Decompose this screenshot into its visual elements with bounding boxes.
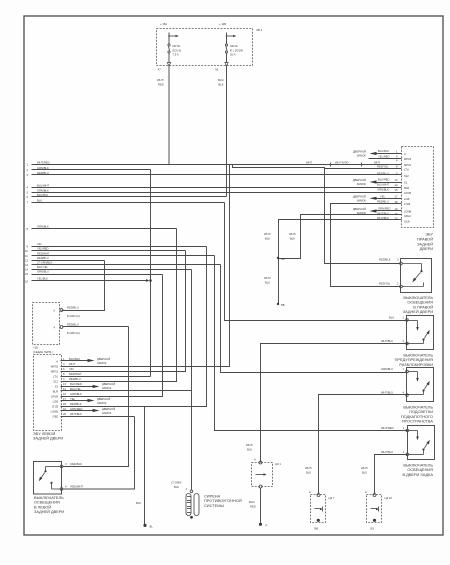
wire pin4 ECU-R <box>325 168 402 170</box>
svg-text:WHT/: WHT/ <box>157 78 164 82</box>
svg-text:WHT/BLU: WHT/BLU <box>381 391 393 395</box>
svg-text:WHT/BLU: WHT/BLU <box>377 212 389 216</box>
svg-text:ДВЕРНОЙ: ДВЕРНОЙ <box>102 407 115 411</box>
svg-text:ЗАМОК: ЗАМОК <box>357 182 367 186</box>
svg-text:YEL: YEL <box>70 397 76 401</box>
svg-text:BLU/BLK: BLU/BLK <box>378 149 389 153</box>
ECU-L row5 wire RED/BLU <box>63 377 81 381</box>
svg-text:LGNB: LGNB <box>404 210 412 214</box>
wire drop to diode box <box>261 344 409 463</box>
bus row 6 BLU/BLK <box>27 193 227 199</box>
svg-text:MP33: MP33 <box>404 157 412 161</box>
svg-text:MP31: MP31 <box>404 163 412 167</box>
wire pin9 YEL arrow <box>353 194 402 202</box>
svg-text:ДВЕРНОЙ: ДВЕРНОЙ <box>353 207 366 211</box>
svg-text:BLK/RED: BLK/RED <box>378 178 390 182</box>
svg-text:A: A <box>309 490 311 494</box>
wire pin1 BLU/BLK with door lock arrow <box>353 149 402 158</box>
wire riser to bottom-left switch pin2 <box>63 417 135 490</box>
svg-text:GLB: GLB <box>404 220 410 224</box>
ECU-L row12 wire WHT/BLK <box>61 412 135 417</box>
svg-text:13: 13 <box>25 263 28 267</box>
svg-text:GRN/BLK: GRN/BLK <box>377 188 389 192</box>
svg-text:BLU: BLU <box>265 281 270 285</box>
ECU-L row4 wire RED/WHT <box>63 372 82 376</box>
svg-text:19: 19 <box>395 207 398 211</box>
node BB <box>277 303 279 305</box>
wire drop row13 to siren <box>221 265 409 373</box>
wire riser to bottom-left switch pin1 <box>63 327 129 467</box>
svg-text:ЦЗ 16: ЦЗ 16 <box>385 496 393 500</box>
svg-text:BLR: BLR <box>53 390 58 394</box>
svg-text:13: 13 <box>395 178 398 182</box>
wire GRN/BLK drop from row2 <box>150 170 152 377</box>
svg-text:14: 14 <box>63 387 66 391</box>
svg-text:RED/BLU: RED/BLU <box>377 200 389 204</box>
svg-text:LGB: LGB <box>53 400 59 404</box>
svg-text:ДВЕРНОЙ: ДВЕРНОЙ <box>353 194 366 198</box>
bus row 8 GRN/BLK <box>27 225 177 232</box>
svg-text:26: 26 <box>395 217 398 221</box>
svg-text:S1: S1 <box>404 181 408 185</box>
svg-text:15: 15 <box>63 392 66 396</box>
svg-text:RED/WHT: RED/WHT <box>69 372 82 376</box>
svg-text:RED/BLK: RED/BLK <box>70 402 82 406</box>
ground dot G2 <box>259 523 262 526</box>
wire pin12 ECU-R to node BD <box>279 215 402 259</box>
svg-text:ДВЕРНОЙ: ДВЕРНОЙ <box>353 150 366 154</box>
svg-text:S1: S1 <box>55 385 59 389</box>
svg-text:LGNB: LGNB <box>51 410 59 414</box>
svg-text:LT GRN/: LT GRN/ <box>171 481 182 485</box>
svg-text:LTU: LTU <box>404 168 409 172</box>
svg-text:A: A <box>56 360 58 364</box>
svg-text:WHT/BLU: WHT/BLU <box>381 339 393 343</box>
svg-text:S12: S12 <box>53 380 58 384</box>
svg-text:WHT/: WHT/ <box>289 232 296 236</box>
svg-text:ВЗ: ВЗ <box>371 527 375 531</box>
svg-text:BLU/: BLU/ <box>218 78 224 82</box>
svg-text:LTU: LTU <box>53 375 58 379</box>
wire drop row8 to switch SW2 pin2 <box>61 229 177 382</box>
svg-text:BLK: BLK <box>174 485 179 489</box>
bus row 12 RED/BLU <box>25 256 105 263</box>
ECU-L label <box>33 431 63 441</box>
svg-text:ЗАМОК: ЗАМОК <box>97 401 107 405</box>
svg-text:BLU/RED: BLU/RED <box>70 382 82 386</box>
ECU-L row11 wire GRN/RED arrow <box>61 407 116 415</box>
svg-text:20: 20 <box>395 212 398 216</box>
svg-text:DR DL: DR DL <box>173 44 182 48</box>
svg-text:VIO: VIO <box>37 242 42 246</box>
svg-text:GRN/RED: GRN/RED <box>378 207 390 211</box>
svg-text:+ 12B: + 12B <box>219 22 226 26</box>
svg-text:17: 17 <box>395 195 398 199</box>
wire drop row14 down to horizontal 342 <box>61 390 192 392</box>
wire drop row15 to ECU-L row8 <box>61 275 163 397</box>
svg-text:BLU/BLK: BLU/BLK <box>69 357 80 361</box>
svg-text:Б GRN (А): Б GRN (А) <box>67 331 80 335</box>
svg-text:ЗАМОК: ЗАМОК <box>97 361 107 365</box>
svg-text:ECU-B: ECU-B <box>173 48 182 52</box>
svg-text:LTLB: LTLB <box>52 405 58 409</box>
wire BLK ground drop <box>144 407 146 525</box>
svg-text:17: 17 <box>63 397 66 401</box>
junction block J/B dashed box <box>157 28 263 66</box>
svg-text:GB2: GB2 <box>53 415 59 419</box>
svg-text:BLK: BLK <box>306 471 311 475</box>
svg-text:ЗАМОК: ЗАМОК <box>357 211 367 215</box>
wire RED/BLU from lock box pin1 <box>67 306 80 319</box>
svg-text:BLK: BLK <box>37 198 42 202</box>
siren label <box>204 494 242 508</box>
svg-text:BLU/WHT: BLU/WHT <box>37 183 49 187</box>
bus row 15 GRN/BLU <box>25 270 163 277</box>
wire BLU/BLK from fuse F2 down to bus row 6 <box>218 66 227 196</box>
svg-text:J/B 2: J/B 2 <box>256 28 263 32</box>
bus row 4 BLU/WHT <box>27 183 402 189</box>
svg-text:ВВ: ВВ <box>315 527 319 531</box>
svg-text:ЗАМОК: ЗАМОК <box>102 386 112 390</box>
wire RED/BLU from lock box pin2 <box>63 323 129 336</box>
svg-text:РАЗБЛОКИРОВКИ: РАЗБЛОКИРОВКИ <box>399 362 433 367</box>
svg-text:Б GRN (А): Б GRN (А) <box>67 314 80 318</box>
bus row 14 BLU/YEL <box>25 265 192 272</box>
svg-text:A6: A6 <box>215 68 219 72</box>
fuse F1 <box>168 33 181 63</box>
wire BLK row7 drop to switch SW2 pin1 <box>225 203 409 321</box>
svg-text:14: 14 <box>395 183 398 187</box>
ground dot G1 <box>143 524 146 527</box>
fuse F2 bottom connector pin A6 <box>225 63 228 67</box>
svg-text:BLU/YEL: BLU/YEL <box>70 387 82 391</box>
svg-text:BLK/: BLK/ <box>249 500 255 504</box>
svg-text:LT GRN/BLK: LT GRN/BLK <box>37 261 53 265</box>
svg-text:GBL2: GBL2 <box>404 214 411 218</box>
svg-text:GRN/BLK: GRN/BLK <box>70 392 82 396</box>
svg-text:20: 20 <box>63 412 66 416</box>
svg-text:ДВЕРНОЙ: ДВЕРНОЙ <box>97 397 110 401</box>
svg-text:A7: A7 <box>158 68 162 72</box>
svg-text:MP31: MP31 <box>51 370 59 374</box>
svg-text:18: 18 <box>63 402 66 406</box>
ECU-L row10 wire RED/BLK <box>63 402 82 406</box>
wire from SW4 pin2 <box>375 455 408 495</box>
svg-text:BLK: BLK <box>265 237 270 241</box>
ECU-L row1 wire BLU/BLK with arrow <box>61 357 111 365</box>
svg-text:WHT/RED: WHT/RED <box>381 426 394 430</box>
svg-text:YEL: YEL <box>380 194 386 198</box>
wire pin6 BLK/RED arrow <box>353 178 402 187</box>
svg-text:WHT/BLU: WHT/BLU <box>377 216 389 220</box>
svg-text:A: A <box>365 490 367 494</box>
svg-text:YEL/RED: YEL/RED <box>378 154 390 158</box>
svg-text:BLU: BLU <box>247 448 252 452</box>
svg-text:RED/BLU: RED/BLU <box>69 377 81 381</box>
ECU-L row2 wire WHT <box>63 362 75 366</box>
bus row 3 RED/BLU <box>27 171 402 177</box>
svg-text:RED/WHT: RED/WHT <box>37 251 50 255</box>
svg-text:LGB: LGB <box>404 197 410 201</box>
SW2 label <box>395 353 434 367</box>
ECU-L row7 wire BLU/YEL <box>63 387 82 391</box>
svg-text:ДВЕРИ: ДВЕРИ <box>420 246 433 251</box>
svg-text:WHT: WHT <box>69 362 75 366</box>
bus row 7 BLK <box>27 198 225 204</box>
svg-text:BD: BD <box>281 257 285 261</box>
svg-text:A: A <box>404 152 406 156</box>
svg-text:(СЕДАН ГЕРМ.): (СЕДАН ГЕРМ.) <box>33 350 53 354</box>
wire pin13 ECU-R down spliced <box>279 220 402 305</box>
svg-text:WHT/: WHT/ <box>305 466 312 470</box>
SW3 label <box>401 405 434 424</box>
inline connector pair on WHT wire <box>306 160 348 166</box>
lock box label <box>33 346 53 355</box>
svg-text:R L DOOR: R L DOOR <box>230 48 243 52</box>
svg-text:RED/BLK: RED/BLK <box>71 462 83 466</box>
svg-text:ПРОСТРАНСТВА: ПРОСТРАНСТВА <box>402 419 434 424</box>
wire pin2 YEL/RED <box>369 154 402 158</box>
svg-text:GRN/BLU: GRN/BLU <box>37 270 49 274</box>
svg-text:RED/BLU: RED/BLU <box>37 256 49 260</box>
wire below diode box <box>260 488 262 523</box>
svg-text:ЦЗ 7: ЦЗ 7 <box>329 496 335 500</box>
svg-text:RED/BLK: RED/BLK <box>379 258 391 262</box>
wire WHT riser from ECU-L row2 <box>61 165 230 367</box>
svg-text:LPUB: LPUB <box>51 395 58 399</box>
svg-text:15: 15 <box>395 188 398 192</box>
svg-text:ЗАМОК: ЗАМОК <box>357 154 367 158</box>
svg-text:13: 13 <box>63 382 66 386</box>
svg-text:RED/BLU: RED/BLU <box>67 323 79 327</box>
svg-text:P: P <box>266 523 268 527</box>
svg-text:RED/BLU: RED/BLU <box>377 172 389 176</box>
svg-text:+ 15A: + 15A <box>160 22 167 26</box>
svg-text:19: 19 <box>63 407 66 411</box>
svg-text:BB: BB <box>281 303 285 307</box>
svg-text:MP32: MP32 <box>51 365 59 369</box>
svg-text:ЗАДНЕЙ ДВЕРИ: ЗАДНЕЙ ДВЕРИ <box>403 309 433 314</box>
svg-text:WHT/: WHT/ <box>361 466 368 470</box>
ECU-R label <box>417 232 434 252</box>
svg-text:ДВЕРНОЙ: ДВЕРНОЙ <box>97 357 110 361</box>
svg-text:ДВЕРНОЙ: ДВЕРНОЙ <box>353 178 366 182</box>
svg-text:S12: S12 <box>404 174 409 178</box>
node BD <box>277 257 279 259</box>
ECU-L row8 wire GRN/BLK <box>63 392 82 396</box>
svg-text:WHT/BLK: WHT/BLK <box>70 412 82 416</box>
wire drop from SW3 pin2 <box>319 395 409 495</box>
svg-text:+2D: +2D <box>33 346 38 350</box>
svg-text:12: 12 <box>25 258 28 262</box>
ECU-L row3 wire VIO to SW3 <box>61 367 186 372</box>
svg-text:В ДВЕРИ ЗАДКА: В ДВЕРИ ЗАДКА <box>402 472 433 477</box>
svg-text:YEL/BLK: YEL/BLK <box>37 276 48 280</box>
svg-text:RED: RED <box>158 83 164 87</box>
wire branch to SW1 from WHT line <box>233 165 401 264</box>
svg-text:WH TN RD: WH TN RD <box>335 160 348 164</box>
svg-text:WHT/: WHT/ <box>264 232 271 236</box>
svg-text:BLK: BLK <box>290 237 295 241</box>
svg-text:ДВЕРНОЙ: ДВЕРНОЙ <box>102 382 115 386</box>
svg-text:BL: BL <box>150 525 154 529</box>
svg-text:BLK: BLK <box>136 501 141 505</box>
svg-text:ЗАДНЕЙ ДВЕРИ: ЗАДНЕЙ ДВЕРИ <box>34 509 64 514</box>
svg-text:ЗАМОК: ЗАМОК <box>357 199 367 203</box>
bus row 2 GRN/BLK <box>27 166 151 172</box>
svg-text:BLU/WHT: BLU/WHT <box>377 183 389 187</box>
bus row 1 WHT/RED <box>27 160 402 166</box>
svg-text:WHT: WHT <box>374 160 380 164</box>
wire drop row12 to lock box2 pin1 <box>62 261 105 311</box>
bus row 11 WHT/BLK <box>25 251 215 257</box>
svg-text:BLU: BLU <box>362 471 367 475</box>
bus row 5 GRN/BLK <box>27 188 402 194</box>
svg-text:7.5 A: 7.5 A <box>173 53 179 57</box>
wire pin11 GRN/RED arrow <box>353 207 402 216</box>
svg-text:LTLB: LTLB <box>404 202 410 206</box>
svg-text:GRN/RED: GRN/RED <box>70 407 82 411</box>
bus row 10 YEL/GRN <box>25 247 186 254</box>
wire drop row10 to ECU-L row5 <box>61 251 186 372</box>
svg-text:RED/WHT: RED/WHT <box>71 485 84 489</box>
svg-text:15: 15 <box>25 272 28 276</box>
svg-text:ЦЗ 1: ЦЗ 1 <box>275 462 281 466</box>
svg-text:ЗАДНЕЙ ДВЕРИ: ЗАДНЕЙ ДВЕРИ <box>33 436 63 441</box>
svg-text:WHT/RED: WHT/RED <box>37 160 50 164</box>
svg-text:10: 10 <box>25 249 28 253</box>
svg-text:ЗАМОК: ЗАМОК <box>102 411 112 415</box>
svg-text:BLU: BLU <box>389 316 394 320</box>
ECU-L row9 wire YEL arrow <box>61 397 111 405</box>
SW4 label <box>402 463 433 477</box>
svg-text:WHT/: WHT/ <box>246 443 253 447</box>
svg-text:RED/YEL: RED/YEL <box>379 282 391 286</box>
svg-text:A: A <box>254 458 256 462</box>
svg-text:BLK: BLK <box>219 83 224 87</box>
svg-text:RED/YEL: RED/YEL <box>377 165 389 169</box>
svg-text:RED: RED <box>250 505 256 509</box>
svg-text:BLR: BLR <box>404 186 409 190</box>
svg-text:16: 16 <box>25 280 28 284</box>
bottom-left switch label <box>34 495 64 514</box>
siren wire label LT GRN/BLK <box>171 481 182 490</box>
svg-text:WHT/BLU: WHT/BLU <box>381 450 393 454</box>
wire WHT/RED from fuse F1 down <box>157 66 169 164</box>
svg-text:VIO: VIO <box>69 367 74 371</box>
svg-text:GRN/BLU: GRN/BLU <box>381 367 393 371</box>
svg-text:18: 18 <box>395 200 398 204</box>
SW1 label <box>403 295 434 314</box>
svg-text:14: 14 <box>25 268 28 272</box>
svg-text:BLU/YEL: BLU/YEL <box>37 265 49 269</box>
svg-text:DR DL: DR DL <box>230 44 239 48</box>
wire drop row9 to ECU-L row10 <box>61 247 207 407</box>
bus row 16 tap wire <box>25 276 152 283</box>
svg-text:WHT: WHT <box>306 160 312 164</box>
svg-text:СИСТЕМЫ: СИСТЕМЫ <box>204 503 224 508</box>
svg-text:WHT/: WHT/ <box>264 276 271 280</box>
wire drop row12 to SW4 pin1 <box>215 256 408 431</box>
fuse F1 bottom connector pin A7 <box>167 63 170 67</box>
wire pin10 ECU-R drop to SW1 pin2 <box>331 204 402 287</box>
fuse F2 <box>225 33 243 63</box>
svg-text:GRN/BLK: GRN/BLK <box>37 188 49 192</box>
ECU-L row6 wire BLU/RED arrow <box>61 382 116 390</box>
svg-text:LPUB: LPUB <box>404 191 411 195</box>
bus row 9 TEL <box>27 242 207 249</box>
svg-text:RED/BLU: RED/BLU <box>67 306 79 310</box>
svg-text:20 A: 20 A <box>230 53 236 57</box>
wire row2-drop to ECU-L row4 <box>61 376 151 378</box>
bus row 13 LT GRN/BLK <box>25 261 221 268</box>
